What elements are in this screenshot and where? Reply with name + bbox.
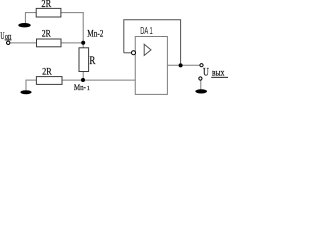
- svg-text:2R: 2R: [42, 29, 51, 40]
- svg-text:2R: 2R: [41, 0, 51, 10]
- svg-text:Mn-: Mn-: [74, 82, 86, 92]
- svg-text:R: R: [89, 53, 95, 67]
- svg-text:2R: 2R: [42, 66, 52, 77]
- svg-text:Mn-2: Mn-2: [87, 29, 103, 39]
- svg-text:1: 1: [87, 85, 90, 92]
- svg-text:U: U: [203, 67, 209, 79]
- svg-text:DA 1: DA 1: [140, 25, 153, 37]
